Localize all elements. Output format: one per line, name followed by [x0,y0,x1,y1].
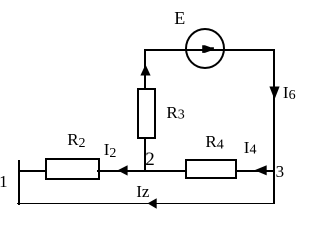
node 3 label [276,163,285,180]
node 2 label [145,150,155,169]
arrow inside source E pointing right [200,43,216,55]
wire: middle horizontal, R4 to node 3 [235,170,275,172]
wire: top horizontal from node above R3 to E source to right branch [144,49,275,51]
label I6 [283,84,296,104]
arrow: current I6 pointing down on right branch [269,86,280,100]
wire: vertical from R3 bottom down to node 2 [144,138,146,172]
wire: bottom horizontal return wire [17,203,275,205]
wire: left vertical at node 1 [18,160,20,205]
arrow: current Iz pointing left on bottom wire [147,198,157,209]
label Iz [136,183,149,200]
arrow: current I4 pointing left into R4 [254,165,267,176]
label R2 [67,131,85,152]
node 1 label [0,173,8,190]
resistor R4 (horizontal box) [185,159,237,180]
label R4 [205,133,223,154]
label I4 [244,139,257,159]
resistor R2 (horizontal box) [45,158,100,180]
arrow: current I2 pointing left into R2 [117,165,128,176]
arrow: current direction up toward E, above R3 [140,64,151,76]
resistor R3 (vertical box) [137,88,156,139]
voltage source E (circle) [185,28,225,69]
label I2 [104,141,117,162]
wire: middle horizontal, node 1 to R2 [18,170,47,172]
wire: middle horizontal, R2 to node 2 to R4 [97,170,187,172]
label R3 [166,104,184,124]
wire: vertical from top wire down to R3 (with current arrow) [144,49,146,89]
label E [174,9,185,27]
wire: right vertical branch from E down to bottom wire [273,49,275,205]
